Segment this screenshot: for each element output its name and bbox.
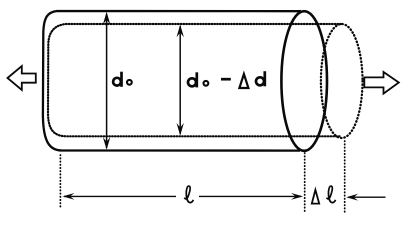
cylinder solid outline (original shape) — [43, 11, 301, 151]
cylinder dotted right end ellipse (stretched) — [321, 24, 363, 138]
label d0 - delta d (right) — [188, 71, 265, 88]
force arrow right (hollow) — [364, 72, 399, 94]
extension line mid (dotted, below solid ellipse) — [304, 153, 306, 213]
dimension line l with arrowheads — [63, 193, 303, 200]
label d0 (left) — [113, 72, 132, 87]
label l (script ell) — [184, 186, 193, 203]
force arrow left (hollow) — [8, 66, 36, 90]
cylinder dotted outline (stretched shape) — [48, 24, 341, 136]
extension line left (dotted) — [59, 155, 61, 208]
label delta-l — [312, 186, 336, 204]
dimension arrow d0 (vertical, double-headed) — [103, 12, 110, 150]
dimension arrow delta-l (from right) — [346, 194, 385, 201]
cylinder solid right end ellipse — [281, 11, 327, 151]
extension line right (dotted, below dotted ellipse) — [344, 141, 346, 213]
dimension arrow d0-dd (vertical, double-headed) — [177, 25, 184, 136]
